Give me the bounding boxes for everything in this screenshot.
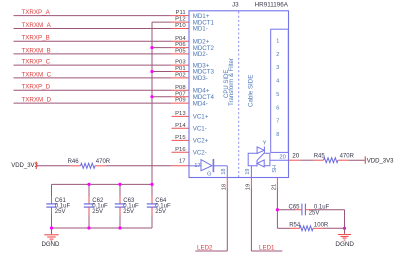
- svg-text:VC1-: VC1-: [193, 125, 207, 132]
- capacitor C62 top lead: [88, 184, 90, 196]
- tvs Y right bracket: [264, 153, 270, 166]
- junction C63 top: [118, 183, 121, 186]
- junction C62 bottom: [87, 226, 90, 229]
- svg-text:P10: P10: [175, 23, 186, 29]
- junction C61 bottom: [50, 226, 53, 229]
- wire LED2 label stub: [195, 250, 227, 252]
- capacitor C63 bottom lead: [119, 207, 121, 215]
- svg-text:19: 19: [245, 169, 251, 175]
- svg-text:18: 18: [221, 169, 227, 175]
- svg-text:VDD_3V3: VDD_3V3: [367, 158, 394, 164]
- svg-text:P16: P16: [175, 147, 186, 153]
- svg-text:17: 17: [179, 159, 186, 165]
- resistor R46 right lead: [95, 165, 105, 167]
- ground DGND right stub: [344, 228, 346, 234]
- junction on bus at P07 row: [150, 95, 153, 98]
- svg-text:TXRXP_D: TXRXP_D: [22, 84, 51, 91]
- tvs Y to pin19 wire: [250, 166, 252, 178]
- wire net TXRXP_D: [14, 89, 172, 91]
- pin 19 stub: [250, 178, 252, 188]
- svg-text:SH: SH: [272, 165, 278, 173]
- svg-text:1: 1: [276, 39, 279, 45]
- led G triangle: [201, 160, 212, 171]
- svg-text:7: 7: [276, 119, 279, 125]
- svg-text:P14: P14: [175, 123, 186, 129]
- tvs Y lower diode: [257, 160, 264, 167]
- svg-text:MD2-: MD2-: [193, 51, 208, 58]
- pin P06 stub: [171, 47, 189, 49]
- resistor R54 right lead: [313, 227, 323, 229]
- wire center-tap jog to P06: [152, 47, 171, 49]
- svg-text:VC2-: VC2-: [193, 149, 207, 156]
- wire center-tap jog to P12: [152, 21, 171, 23]
- led G to pin18 wire: [213, 165, 227, 167]
- capacitor C61 bottom lead: [51, 207, 53, 215]
- svg-text:100R: 100R: [314, 222, 329, 228]
- svg-text:P02: P02: [175, 73, 185, 79]
- svg-text:20: 20: [279, 155, 285, 161]
- svg-text:19: 19: [245, 184, 251, 190]
- junction C63 bottom: [118, 226, 121, 229]
- pin P07 stub: [171, 96, 189, 98]
- svg-text:R46: R46: [68, 159, 80, 165]
- wire net TXRXM_C: [14, 77, 172, 79]
- wire R45 to VDD_3V3: [348, 159, 365, 161]
- power port VDD_3V3 left bar: [35, 162, 37, 169]
- svg-text:Cable SIDE: Cable SIDE: [247, 75, 254, 107]
- led G anode wire: [189, 165, 201, 167]
- wire pin20 to R45: [300, 159, 314, 161]
- pin P14 stub: [172, 127, 190, 129]
- tvs Y to pin20 wire: [270, 159, 289, 161]
- svg-text:6: 6: [276, 105, 279, 111]
- wire C65 to ground corner: [311, 209, 344, 211]
- svg-text:LED2: LED2: [197, 244, 213, 251]
- resistor R45 left lead: [314, 159, 324, 161]
- svg-text:MD4-: MD4-: [193, 100, 208, 107]
- power port VDD_3V3 right bar: [364, 156, 366, 163]
- capacitor C65 left lead: [296, 209, 302, 211]
- capacitor C65 plates: [301, 204, 303, 216]
- ground DGND right hatch: [338, 234, 351, 236]
- pin P05 stub: [171, 53, 189, 55]
- wire R54 to ground: [323, 227, 345, 229]
- svg-text:TXRXM_B: TXRXM_B: [22, 47, 51, 54]
- svg-text:TXRXP_B: TXRXP_B: [22, 35, 50, 42]
- wire pin19 to LED1: [250, 187, 252, 251]
- svg-text:R45: R45: [314, 154, 326, 160]
- pin P08 stub: [171, 89, 189, 91]
- svg-text:P13: P13: [175, 111, 186, 117]
- svg-text:21: 21: [271, 184, 277, 190]
- svg-text:HR911196A: HR911196A: [255, 2, 289, 9]
- pin P01 stub: [171, 71, 189, 73]
- capacitor C64 top lead: [151, 184, 153, 196]
- pin P11 stub: [171, 15, 189, 17]
- svg-text:25V: 25V: [155, 209, 166, 215]
- svg-text:TXRXM_D: TXRXM_D: [22, 97, 52, 104]
- svg-text:TXRXP_A: TXRXP_A: [22, 9, 51, 16]
- svg-text:TXRXM_A: TXRXM_A: [22, 22, 52, 29]
- junction bus cap rail: [150, 183, 153, 186]
- svg-text:25V: 25V: [123, 209, 134, 215]
- capacitor C63 plates: [115, 203, 125, 205]
- pin P13 stub: [172, 115, 190, 117]
- svg-text:18: 18: [221, 184, 227, 190]
- svg-text:VDD_3V3: VDD_3V3: [11, 163, 38, 169]
- tvs Y series diagonal: [257, 153, 264, 160]
- svg-text:C65: C65: [289, 204, 301, 210]
- svg-text:G: G: [207, 171, 212, 177]
- wire pin21 down: [276, 187, 278, 228]
- wire net TXRXM_B: [14, 53, 172, 55]
- resistor R46 left lead: [70, 165, 80, 167]
- svg-text:P11: P11: [176, 10, 186, 16]
- svg-text:P08: P08: [175, 85, 186, 91]
- svg-text:3: 3: [276, 65, 279, 71]
- wire R46 to pin 17: [105, 165, 171, 167]
- svg-text:P03: P03: [175, 60, 186, 66]
- resistor R45 body: [324, 158, 338, 163]
- svg-text:25V: 25V: [92, 209, 103, 215]
- svg-text:P01: P01: [175, 66, 185, 72]
- svg-text:470R: 470R: [96, 159, 111, 165]
- wire center-tap bus vertical: [151, 22, 153, 184]
- svg-text:17: 17: [194, 163, 200, 169]
- wire center-tap jog to P01: [152, 71, 171, 73]
- wire LED1 label stub: [251, 250, 282, 252]
- capacitor C61 plates: [46, 203, 56, 205]
- wire net TXRXM_D: [14, 102, 172, 104]
- junction on bus at P01 row: [150, 70, 153, 73]
- svg-text:P05: P05: [175, 49, 186, 55]
- wire net TXRXP_B: [14, 40, 172, 42]
- capacitor C61 top lead: [51, 184, 53, 196]
- svg-text:P12: P12: [175, 17, 185, 23]
- pin 17 stub: [171, 165, 189, 167]
- wire pin18 to LED2: [226, 187, 228, 251]
- pin 18 stub: [226, 178, 228, 188]
- svg-text:8: 8: [276, 132, 279, 138]
- pin P02 stub: [171, 77, 189, 79]
- led G cathode bar: [212, 159, 214, 172]
- svg-text:R54: R54: [289, 222, 301, 228]
- capacitor C63 top lead: [119, 184, 121, 196]
- pin P12 stub: [171, 21, 189, 23]
- svg-text:2: 2: [276, 52, 279, 58]
- resistor R45 right lead: [338, 159, 348, 161]
- junction ground tee right: [343, 227, 346, 230]
- svg-text:470R: 470R: [340, 154, 355, 160]
- capacitor C65 right lead: [306, 209, 312, 211]
- svg-text:Y: Y: [263, 141, 267, 147]
- svg-text:DGND: DGND: [335, 241, 354, 248]
- connector J3 outline: [189, 11, 289, 178]
- capacitor C62 bottom lead: [88, 207, 90, 215]
- wire net TXRXM_A: [14, 28, 172, 30]
- cable side pin block: [271, 29, 289, 152]
- wire center-tap jog to P07: [152, 96, 171, 98]
- wire cap bottom rail: [52, 227, 153, 229]
- svg-text:P07: P07: [175, 91, 185, 97]
- pin 21 stub: [276, 178, 278, 188]
- pin 20 stub: [289, 159, 301, 161]
- wire net TXRXP_C: [14, 64, 172, 66]
- wire cap top rail: [52, 183, 153, 185]
- pin P03 stub: [171, 64, 189, 66]
- resistor R54 body: [300, 226, 314, 231]
- tvs Y left bracket: [248, 153, 257, 166]
- capacitor C64 plates: [147, 203, 157, 205]
- svg-text:P06: P06: [175, 42, 186, 48]
- pin P15 stub: [172, 139, 190, 141]
- wire VDD_3V3 to R46: [37, 165, 71, 167]
- svg-text:TXRXP_C: TXRXP_C: [22, 59, 51, 66]
- ground DGND left stub: [51, 228, 53, 234]
- svg-text:5: 5: [276, 92, 279, 98]
- svg-text:P04: P04: [175, 36, 186, 42]
- wire to C65: [277, 209, 295, 211]
- svg-text:VC2+: VC2+: [193, 138, 209, 145]
- wire net TXRXP_A: [14, 15, 172, 17]
- svg-text:DGND: DGND: [42, 241, 61, 248]
- svg-text:4: 4: [276, 79, 279, 85]
- svg-text:Transform & Filter: Transform & Filter: [229, 58, 235, 106]
- ground DGND left hatch: [44, 234, 58, 236]
- svg-text:MD1-: MD1-: [193, 26, 208, 33]
- pin P04 stub: [171, 40, 189, 42]
- svg-text:20: 20: [292, 153, 299, 160]
- resistor R54 left lead: [290, 227, 300, 229]
- junction pin21 C65 tee: [276, 208, 279, 211]
- pin P10 stub: [171, 28, 189, 30]
- svg-text:VC1+: VC1+: [193, 114, 209, 121]
- svg-text:J3: J3: [232, 2, 239, 9]
- svg-text:P09: P09: [175, 98, 185, 104]
- junction on bus at P06 row: [150, 46, 153, 49]
- pin P16 stub: [172, 151, 190, 153]
- svg-text:P15: P15: [175, 135, 186, 141]
- capacitor C64 bottom lead: [151, 207, 153, 215]
- svg-text:25V: 25V: [309, 211, 320, 217]
- wire pin21 to R54: [277, 227, 289, 229]
- divider dashed line: [238, 12, 240, 178]
- capacitor C62 plates: [84, 203, 94, 205]
- svg-text:LED1: LED1: [259, 244, 275, 251]
- resistor R46 body: [81, 163, 95, 168]
- svg-text:MD3-: MD3-: [193, 75, 208, 82]
- svg-text:TXRXM_C: TXRXM_C: [22, 71, 52, 78]
- tvs Y upper diode: [257, 147, 264, 154]
- pin P09 stub: [171, 102, 189, 104]
- svg-text:25V: 25V: [55, 209, 66, 215]
- junction C62 top: [87, 183, 90, 186]
